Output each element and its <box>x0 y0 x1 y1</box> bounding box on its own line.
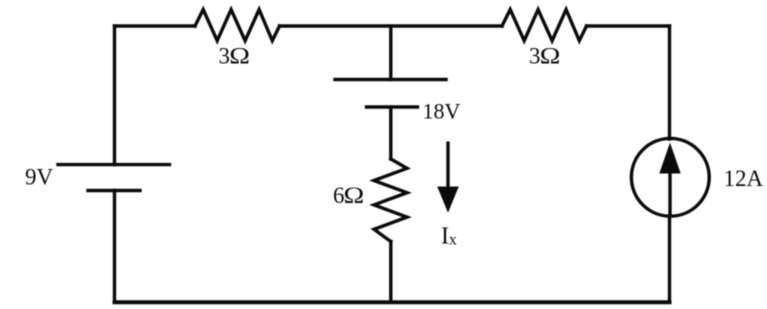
wire top-right segment <box>587 24 670 27</box>
battery V2 18V long plate <box>335 78 446 81</box>
wire bottom <box>115 300 670 304</box>
wire middle vertical upper <box>389 26 392 80</box>
resistor R3 6ohm (vertical zigzag) <box>374 159 407 242</box>
svg-text:Ω: Ω <box>540 43 561 69</box>
resistor R2 3ohm (top-right zigzag) <box>502 10 587 41</box>
svg-text:Ix: Ix <box>441 224 457 250</box>
current source I1 arrow shaft <box>668 168 671 215</box>
battery V1 9V long plate <box>58 163 170 166</box>
svg-text:9V: 9V <box>25 165 54 190</box>
current source I1 circle <box>631 138 709 216</box>
battery V2 18V short plate <box>367 105 418 108</box>
svg-text:3: 3 <box>219 44 231 69</box>
wire left vertical lower <box>113 191 116 303</box>
wire top-middle segment <box>280 24 503 27</box>
wire top-left segment <box>115 24 196 27</box>
arrow Ix shaft <box>446 142 449 193</box>
svg-text:3: 3 <box>529 44 541 69</box>
svg-text:18V: 18V <box>423 99 461 124</box>
wire middle below battery <box>389 107 392 159</box>
current source I1 arrowhead <box>659 143 680 174</box>
svg-text:Ω: Ω <box>344 182 365 208</box>
resistor R1 3ohm (top-left zigzag) <box>195 10 280 41</box>
arrow Ix head <box>437 187 459 213</box>
wire middle vertical lower <box>389 242 392 303</box>
battery V1 9V short plate <box>88 189 140 192</box>
wire right vertical lower <box>668 216 671 302</box>
svg-text:12A: 12A <box>724 166 764 191</box>
wire right vertical upper <box>668 26 671 139</box>
wire left vertical upper <box>113 26 116 165</box>
svg-text:Ω: Ω <box>229 43 250 69</box>
